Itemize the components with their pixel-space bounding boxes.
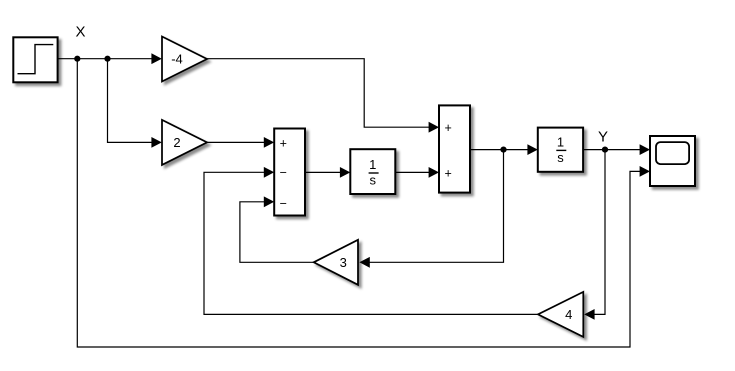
wire: branch from node X down, along bottom, up to scope second input (77, 59, 640, 347)
svg-text:1: 1 (557, 134, 564, 149)
svg-text:−: − (280, 166, 287, 180)
svg-text:−: − (280, 196, 287, 210)
arrowhead into integrator I2 (527, 144, 537, 155)
svg-text:-4: -4 (171, 52, 183, 67)
arrowhead into gain G4 (points left) (584, 309, 594, 320)
wire: branch from node Y down and left to gain G4 input (594, 150, 605, 315)
svg-text:Y: Y (598, 129, 608, 146)
wire: gain G1 (-4) output right, down, to sum S2 first input (207, 59, 429, 128)
step source block (13, 37, 57, 82)
arrowhead into scope input 2 (640, 166, 650, 177)
svg-text:3: 3 (340, 255, 347, 270)
scope block (650, 136, 695, 186)
wire: integrator I2 output to scope first input (node Y) (583, 149, 640, 151)
sum block S2 (439, 105, 470, 192)
svg-text:+: + (445, 167, 452, 181)
integrator I1 block (350, 149, 395, 194)
integrator I2 fraction bar (556, 149, 566, 151)
gain G3 triangle (points left) (314, 240, 358, 285)
svg-text:2: 2 (173, 135, 180, 150)
wire: integrator I1 output to sum S2 second input (395, 171, 429, 173)
wire: gain G4 (4) output left, up, to sum S1 second input (204, 172, 538, 314)
wire: sum S1 output to integrator I1 input (305, 171, 340, 173)
scope screen icon (656, 142, 689, 164)
step icon inside step block (18, 45, 54, 74)
svg-text:X: X (75, 23, 85, 40)
wire: branch from X down and right to gain G2 input (108, 59, 152, 143)
wire: gain G3 (3) output left, up, to sum S1 third input (240, 202, 314, 262)
junction dot at sum S2 output (500, 147, 506, 153)
svg-text:1: 1 (369, 157, 376, 172)
svg-text:4: 4 (565, 307, 572, 322)
svg-text:+: + (445, 121, 452, 135)
integrator I2 block (538, 128, 583, 172)
arrowhead into sum S2 input 2 (429, 167, 439, 178)
arrowhead into sum S1 input 1 (264, 137, 274, 148)
junction dot at node X (branch 2) (104, 56, 110, 62)
arrowhead into gain G1 (151, 53, 161, 64)
sum block S1 (274, 129, 305, 216)
gain G1 triangle (162, 37, 207, 82)
svg-text:+: + (280, 137, 287, 151)
wire: gain G2 (2) output to sum S1 first input (207, 141, 264, 143)
wire: branch from sum S2 output down and left to gain G3 input (369, 150, 503, 263)
svg-text:s: s (369, 173, 376, 188)
arrowhead into integrator I1 (340, 167, 350, 178)
wire: step output to gain G1 input (node X) (58, 58, 152, 60)
arrowhead into gain G2 (151, 137, 161, 148)
arrowhead into gain G3 (points left) (359, 257, 369, 268)
gain G4 triangle (points left) (538, 292, 583, 337)
arrowhead into scope input 1 (640, 144, 650, 155)
wire: sum S2 output to integrator I2 input (470, 149, 528, 151)
integrator I1 fraction bar (369, 172, 379, 174)
junction dot at node X (branch 1) (74, 56, 80, 62)
junction dot at node Y (602, 147, 608, 153)
arrowhead into sum S1 input 3 (264, 196, 274, 207)
gain G2 triangle (162, 120, 207, 165)
svg-text:s: s (557, 150, 564, 165)
arrowhead into sum S1 input 2 (264, 167, 274, 178)
arrowhead into sum S2 input 1 (429, 122, 439, 133)
